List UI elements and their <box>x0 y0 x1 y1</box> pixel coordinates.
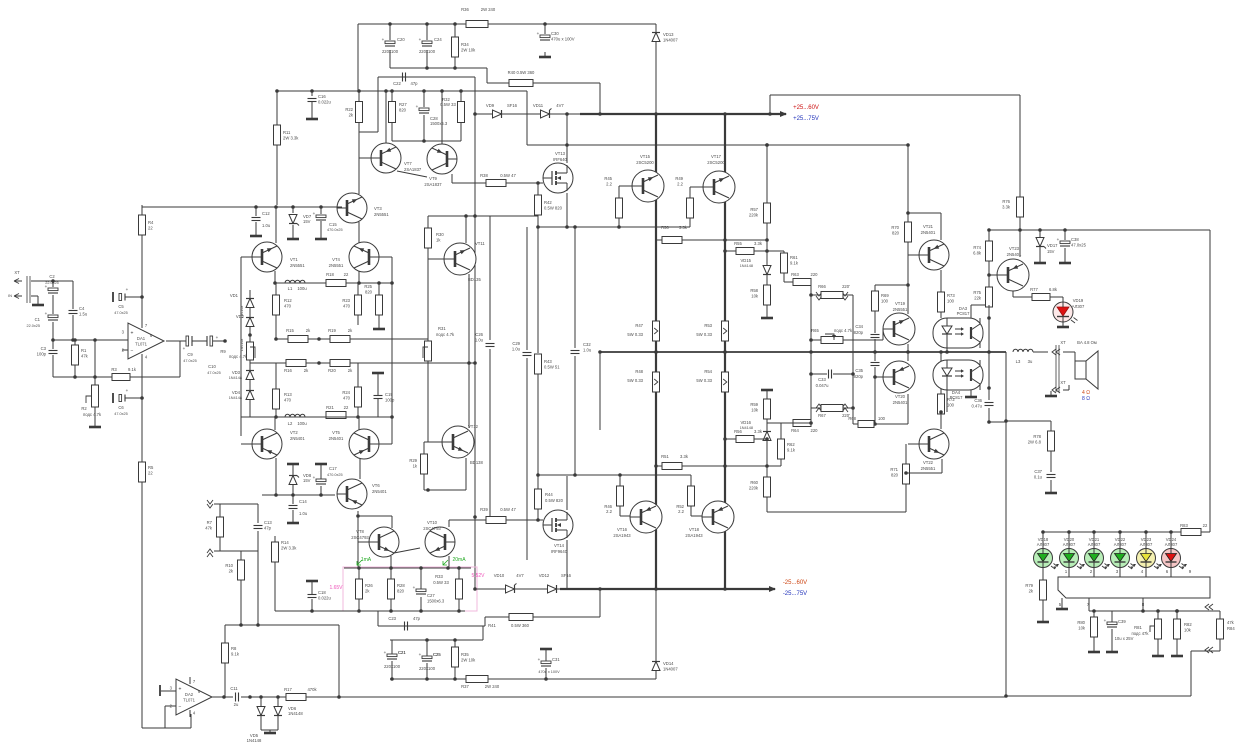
resistor R20 <box>330 360 350 367</box>
svg-text:C32: C32 <box>583 342 591 347</box>
svg-text:2N5551: 2N5551 <box>290 263 305 268</box>
wire <box>766 305 768 313</box>
svg-text:R66: R66 <box>818 284 826 289</box>
svg-text:R8: R8 <box>231 646 237 651</box>
-25V supply bus <box>560 588 775 590</box>
LED VD19 red indicator <box>1053 297 1085 323</box>
wire <box>1093 532 1095 549</box>
wire <box>1093 567 1095 577</box>
wire <box>377 611 379 626</box>
svg-text:R71: R71 <box>890 467 898 472</box>
capacitor C2 <box>45 284 58 293</box>
svg-text:0.047u: 0.047u <box>816 383 829 388</box>
svg-text:C15: C15 <box>329 222 337 227</box>
wire <box>988 230 990 241</box>
wire <box>484 617 486 626</box>
svg-text:R61: R61 <box>790 255 798 260</box>
wire <box>358 91 360 101</box>
resistor R69 <box>872 291 890 311</box>
wire R7 bottom <box>214 550 258 552</box>
wire <box>357 283 359 295</box>
wire <box>452 182 486 184</box>
svg-text:220k: 220k <box>749 486 759 491</box>
wire <box>192 340 207 342</box>
svg-text:R55: R55 <box>734 241 742 246</box>
svg-text:C38: C38 <box>1071 237 1079 242</box>
svg-text:VD19: VD19 <box>1073 298 1084 303</box>
wire C23 link <box>378 625 485 627</box>
resistor R25 <box>364 284 382 315</box>
svg-text:C29: C29 <box>512 341 520 346</box>
svg-text:C34: C34 <box>855 324 863 329</box>
wire <box>377 399 379 417</box>
svg-text:22: 22 <box>148 226 153 231</box>
wire <box>655 589 657 661</box>
wire <box>1093 611 1095 617</box>
svg-text:22.0x25: 22.0x25 <box>45 281 59 285</box>
resistor R53 <box>722 321 729 341</box>
resistor R56 <box>736 436 754 443</box>
svg-text:C27: C27 <box>427 593 435 598</box>
wire <box>52 281 54 287</box>
wire <box>94 407 96 422</box>
wire VT7-VT9 link <box>397 171 427 177</box>
svg-text:SF16: SF16 <box>561 573 572 578</box>
wire center v1 <box>489 216 491 340</box>
wire <box>277 697 279 706</box>
wire <box>1145 567 1147 577</box>
svg-text:PC817: PC817 <box>950 395 963 400</box>
resistor R40 <box>509 80 533 87</box>
svg-text:C39: C39 <box>1118 619 1126 624</box>
svg-text:VD16: VD16 <box>741 420 752 425</box>
capacitor C28 <box>416 104 429 113</box>
wire <box>275 283 277 295</box>
wire <box>261 729 278 731</box>
wire <box>811 407 822 409</box>
svg-text:820: 820 <box>397 589 405 594</box>
resistor R82 <box>1174 619 1193 639</box>
capacitor C13 <box>254 520 273 531</box>
svg-text:2N5551: 2N5551 <box>329 263 344 268</box>
resistor R3 <box>112 374 130 381</box>
svg-text:820p: 820p <box>854 330 864 335</box>
wire <box>276 91 278 125</box>
wire <box>811 294 821 296</box>
wire <box>164 706 166 728</box>
wire <box>1033 351 1048 353</box>
resistor R19 <box>330 336 350 343</box>
svg-text:3.3k: 3.3k <box>679 225 688 230</box>
wire <box>142 727 165 729</box>
wire <box>275 315 277 339</box>
svg-text:VT10: VT10 <box>427 520 438 525</box>
svg-text:C16: C16 <box>318 94 326 99</box>
connector XT speaker <box>1056 340 1097 392</box>
wire <box>1219 639 1221 651</box>
node test point lower <box>1205 647 1213 653</box>
wire <box>655 42 657 114</box>
wire <box>1064 248 1066 258</box>
wire <box>754 438 767 440</box>
wire DA2 out <box>212 696 233 698</box>
wire <box>224 663 226 696</box>
resistor R13 <box>273 389 293 409</box>
svg-text:1.0u: 1.0u <box>512 347 521 352</box>
svg-text:0.5W 47: 0.5W 47 <box>500 507 516 512</box>
svg-text:100p: 100p <box>37 352 47 357</box>
svg-text:R14: R14 <box>281 540 289 545</box>
svg-text:1.5u: 1.5u <box>79 312 88 317</box>
transistor VT10 2SC4793 <box>425 527 455 557</box>
svg-text:2SC5200: 2SC5200 <box>636 160 654 165</box>
capacitor C18 <box>308 590 332 601</box>
svg-text:R19: R19 <box>328 328 336 333</box>
wire <box>423 442 425 454</box>
wire feedback node <box>53 376 180 378</box>
wire <box>249 327 251 342</box>
wire <box>423 474 425 490</box>
wire <box>489 349 491 520</box>
wire VT21 emitter <box>940 270 942 292</box>
svg-text:R17: R17 <box>284 687 292 692</box>
svg-text:VT2: VT2 <box>290 430 298 435</box>
svg-text:220k: 220k <box>749 213 759 218</box>
wire <box>52 295 54 314</box>
wire <box>767 250 784 252</box>
svg-text:100u: 100u <box>297 286 307 291</box>
svg-text:R62: R62 <box>787 442 795 447</box>
wire <box>1170 567 1172 577</box>
wire <box>537 509 539 520</box>
wire <box>1039 230 1041 237</box>
LED VD23 yellow <box>1137 537 1163 569</box>
transistor VT17 2SC5200 <box>703 171 735 203</box>
svg-text:VT12: VT12 <box>468 424 479 429</box>
wire <box>52 322 54 349</box>
wire <box>656 465 662 467</box>
svg-text:подс 4.7k: подс 4.7k <box>834 328 853 333</box>
svg-text:+: + <box>416 104 419 109</box>
ground VD19 <box>1057 322 1069 327</box>
svg-text:47p: 47p <box>411 81 419 86</box>
wire <box>544 24 546 34</box>
diode VD13 <box>652 32 678 43</box>
ground C37 <box>1045 488 1057 493</box>
svg-text:R69: R69 <box>881 293 889 298</box>
wire <box>141 482 143 728</box>
positive rail vertical VT17 <box>724 114 726 589</box>
svg-text:+: + <box>313 211 316 216</box>
svg-text:+25...60V: +25...60V <box>793 105 819 111</box>
wire <box>1157 639 1159 651</box>
wire <box>125 296 142 298</box>
svg-text:C5: C5 <box>118 304 124 309</box>
wire <box>882 329 884 340</box>
wire <box>31 295 38 297</box>
wire <box>74 365 76 377</box>
svg-text:3.3k: 3.3k <box>680 454 689 459</box>
wire <box>874 352 876 361</box>
wire R41 to bus <box>599 589 601 617</box>
svg-text:1500x6.3: 1500x6.3 <box>430 121 448 126</box>
+25V supply bus <box>475 113 580 115</box>
svg-text:+: + <box>419 37 422 42</box>
resistor R79 <box>1025 580 1046 600</box>
wire <box>458 568 460 579</box>
svg-text:R53: R53 <box>704 323 712 328</box>
wire LED anode rail <box>1043 531 1210 533</box>
diode VD8 zener <box>289 476 299 485</box>
resistor R46 <box>617 486 624 506</box>
svg-text:1mA: 1mA <box>361 557 372 563</box>
svg-text:R82: R82 <box>1184 622 1192 627</box>
wire <box>275 409 277 417</box>
svg-text:АЛ307: АЛ307 <box>1088 542 1101 547</box>
resistor R32 <box>458 102 465 123</box>
wire center v2 <box>526 227 528 350</box>
svg-text:820p: 820p <box>854 374 864 379</box>
svg-text:C6: C6 <box>118 405 124 410</box>
wire VT23 emitter <box>1012 291 1014 297</box>
wire <box>1176 611 1178 619</box>
wire VAS collector node <box>392 140 461 142</box>
capacitor C16 <box>308 94 332 105</box>
wire DA1 out down <box>179 341 181 377</box>
wire R16 row <box>250 362 475 364</box>
wire <box>454 667 456 679</box>
wire <box>1088 598 1090 611</box>
svg-text:820: 820 <box>891 473 899 478</box>
wire <box>754 250 767 252</box>
inductor L3 <box>1013 349 1033 364</box>
wire <box>526 358 528 560</box>
svg-text:R31: R31 <box>438 326 446 331</box>
wire VT19 collector <box>907 285 909 314</box>
svg-text:АЛ307: АЛ307 <box>1072 304 1085 309</box>
svg-text:47.0x25: 47.0x25 <box>114 412 128 416</box>
wire <box>1190 651 1192 696</box>
svg-text:R48: R48 <box>635 369 643 374</box>
wire <box>357 363 359 387</box>
wire <box>1119 532 1121 549</box>
wire <box>1039 247 1041 258</box>
svg-text:3.3k: 3.3k <box>754 429 763 434</box>
ground speaker <box>1045 391 1057 396</box>
resistor R76 <box>1002 197 1023 217</box>
svg-text:470: 470 <box>284 398 292 403</box>
svg-text:470.0x25: 470.0x25 <box>327 473 343 477</box>
svg-text:2.2: 2.2 <box>606 509 612 514</box>
svg-text:2SA1837: 2SA1837 <box>424 182 442 187</box>
svg-text:R38: R38 <box>480 173 488 178</box>
capacitor C38 <box>1057 237 1087 248</box>
wire <box>1050 451 1052 472</box>
wire driver rail <box>538 226 690 228</box>
transistor VT5 2N5401 <box>349 429 379 459</box>
wire <box>72 315 74 340</box>
svg-text:R25: R25 <box>364 284 372 289</box>
resistor R41 <box>509 614 533 621</box>
wire <box>655 24 657 32</box>
capacitor C31 <box>538 657 561 666</box>
wire <box>767 465 781 467</box>
LED VD18 green <box>1034 537 1060 569</box>
svg-text:2N5401: 2N5401 <box>329 436 344 441</box>
wire right vertical <box>1209 230 1211 532</box>
resistor R83 <box>1181 529 1201 536</box>
svg-text:R54: R54 <box>704 369 712 374</box>
wire <box>249 308 251 317</box>
svg-text:+: + <box>179 687 182 693</box>
resistor R42 <box>535 195 563 215</box>
diode VD14 <box>652 661 678 672</box>
svg-text:C30: C30 <box>551 31 559 36</box>
node tp R7 bottom <box>207 549 213 557</box>
wire bus tap down <box>599 352 601 430</box>
wire rail3 left <box>277 90 358 92</box>
svg-text:VD17: VD17 <box>1047 243 1058 248</box>
wire <box>852 295 854 424</box>
svg-text:100: 100 <box>947 403 955 408</box>
node XT out a <box>1052 349 1060 355</box>
wire <box>781 422 793 424</box>
svg-text:R65: R65 <box>811 328 819 333</box>
svg-text:C22: C22 <box>393 81 401 86</box>
wire <box>1042 600 1044 617</box>
wire <box>448 556 450 568</box>
svg-text:+: + <box>382 37 385 42</box>
capacitor C23 <box>405 622 408 631</box>
svg-text:C10: C10 <box>208 364 216 369</box>
svg-text:R34: R34 <box>461 42 469 47</box>
transistor VT1 2N5551 <box>252 242 282 272</box>
wire <box>690 506 692 516</box>
diode VD9 <box>493 110 502 118</box>
wire <box>482 626 484 640</box>
wire <box>276 145 278 205</box>
diode VD17 zener <box>1036 238 1046 249</box>
wire <box>213 340 225 342</box>
diode VD6 <box>274 707 282 716</box>
wire <box>424 441 442 443</box>
wire <box>320 221 322 235</box>
ground R59 <box>761 390 773 395</box>
trimmer R31 <box>423 341 432 361</box>
resistor R27 <box>389 102 408 123</box>
svg-text:1.0u: 1.0u <box>583 348 592 353</box>
svg-text:R23: R23 <box>342 298 350 303</box>
ground DA4 <box>965 392 977 397</box>
wire servo drop <box>257 551 259 625</box>
wire <box>378 315 380 324</box>
svg-text:R26: R26 <box>365 583 373 588</box>
wire bottom rail <box>390 678 545 680</box>
svg-text:+: + <box>183 346 186 351</box>
svg-text:R20: R20 <box>328 368 336 373</box>
ground R58 <box>761 313 773 318</box>
svg-text:R73: R73 <box>947 293 955 298</box>
resistor R10 <box>225 560 244 580</box>
ground C12 <box>250 231 262 236</box>
transistor VT15 2SC5200 <box>632 170 664 202</box>
wire <box>874 339 876 352</box>
wire <box>274 536 276 542</box>
wire <box>257 531 259 551</box>
wire <box>1019 230 1021 242</box>
svg-text:4V7: 4V7 <box>556 103 564 108</box>
svg-text:0.022u: 0.022u <box>318 596 331 601</box>
svg-text:22: 22 <box>1203 523 1208 528</box>
svg-text:VD13: VD13 <box>663 32 674 37</box>
resistor R51 <box>662 463 682 470</box>
svg-text:R15: R15 <box>286 328 294 333</box>
wire <box>454 24 456 37</box>
svg-text:R5: R5 <box>148 465 154 470</box>
svg-text:VT6: VT6 <box>372 483 380 488</box>
wire VT4 emitter <box>358 271 360 283</box>
wire <box>619 185 632 187</box>
wire <box>793 422 811 424</box>
resistor R57 <box>749 203 771 223</box>
svg-text:R27: R27 <box>399 102 407 107</box>
resistor R35 <box>452 647 477 667</box>
svg-text:R42: R42 <box>544 200 552 205</box>
ground C19 <box>372 373 384 378</box>
wire <box>1157 611 1159 619</box>
resistor R14 <box>272 540 298 562</box>
resistor R7 <box>205 517 223 537</box>
wire VT7 base VT3 collector <box>358 122 360 194</box>
wire <box>599 83 601 114</box>
wire <box>907 242 909 285</box>
wire <box>1111 629 1113 647</box>
svg-text:R60: R60 <box>750 480 758 485</box>
resistor R45 <box>604 176 622 218</box>
svg-text:10u x 25V: 10u x 25V <box>1115 636 1134 641</box>
svg-text:C35: C35 <box>855 368 863 373</box>
resistor R59 <box>750 399 770 419</box>
wire <box>458 599 460 611</box>
op-amp DA2 TL071x <box>170 677 212 717</box>
wire <box>811 373 827 375</box>
svg-text:1N4148: 1N4148 <box>240 306 244 319</box>
wire <box>141 205 143 215</box>
svg-text:R63: R63 <box>791 272 799 277</box>
resistor R75 <box>973 287 992 307</box>
wire <box>454 57 456 68</box>
wire <box>277 716 279 730</box>
wire rail R40 <box>487 82 600 84</box>
svg-text:2N5401: 2N5401 <box>290 436 305 441</box>
svg-text:+: + <box>45 311 48 316</box>
wire <box>970 390 972 392</box>
wire <box>907 145 909 222</box>
wire <box>1050 421 1052 431</box>
capacitor C12 <box>252 218 261 221</box>
wire <box>725 438 736 440</box>
svg-text:0.47u: 0.47u <box>972 404 983 409</box>
resistor R1 <box>72 345 89 365</box>
wire <box>486 68 488 83</box>
wire <box>874 285 876 291</box>
svg-text:22: 22 <box>344 405 349 410</box>
inductor L1 <box>285 280 307 291</box>
svg-text:47.0x25: 47.0x25 <box>207 371 221 375</box>
wire <box>391 640 393 654</box>
svg-text:АЛ307: АЛ307 <box>1140 542 1153 547</box>
LED VD22 green <box>1111 537 1137 569</box>
